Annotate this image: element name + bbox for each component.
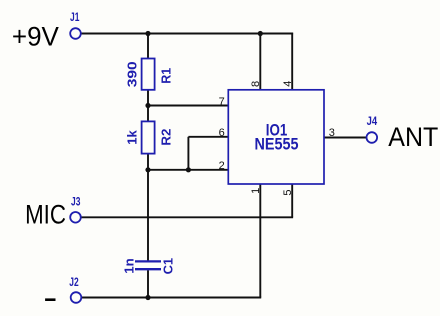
IC U1 IO1 NE555 box bbox=[228, 90, 324, 184]
wire pin2 bbox=[148, 169, 228, 171]
node pin8 junction bbox=[258, 31, 263, 36]
svg-text:1k: 1k bbox=[125, 130, 140, 145]
wire +9V rail top bbox=[76, 33, 293, 35]
svg-text:2: 2 bbox=[219, 160, 225, 172]
connector J1 bbox=[70, 28, 81, 39]
svg-text:7: 7 bbox=[219, 96, 225, 108]
wire MIC to pin5 horizontal bbox=[76, 216, 294, 218]
svg-text:+9V: +9V bbox=[12, 21, 59, 51]
wire C1 bottom lead bbox=[147, 270, 149, 297]
connector J2 bbox=[71, 292, 82, 303]
svg-text:8: 8 bbox=[250, 81, 262, 87]
wire pin1 drop bbox=[259, 184, 261, 298]
wire ground rail bbox=[76, 297, 261, 299]
wire R2 top lead bbox=[147, 106, 149, 122]
svg-text:R2: R2 bbox=[159, 129, 174, 146]
svg-text:4: 4 bbox=[282, 81, 294, 87]
svg-text:1n: 1n bbox=[122, 258, 137, 274]
wire pin6 to pin2 vertical bbox=[187, 137, 189, 170]
svg-text:J2: J2 bbox=[69, 275, 79, 289]
svg-text:5: 5 bbox=[282, 189, 294, 195]
node R1 top junction bbox=[145, 31, 150, 36]
svg-text:R1: R1 bbox=[159, 68, 174, 84]
svg-text:J1: J1 bbox=[70, 10, 80, 24]
svg-text:1: 1 bbox=[250, 188, 262, 194]
svg-text:MIC: MIC bbox=[25, 200, 66, 230]
svg-text:C1: C1 bbox=[160, 258, 175, 275]
wire R1 top lead bbox=[147, 34, 149, 59]
connector J3 bbox=[70, 212, 81, 223]
svg-text:3: 3 bbox=[329, 127, 335, 139]
svg-text:NE555: NE555 bbox=[255, 135, 299, 154]
svg-text:6: 6 bbox=[219, 127, 225, 139]
resistor R2 bbox=[142, 121, 155, 153]
node C1 ground junction bbox=[145, 295, 150, 300]
svg-text:390: 390 bbox=[125, 61, 140, 87]
node pin7 junction bbox=[145, 103, 150, 108]
svg-text:J4: J4 bbox=[367, 114, 378, 128]
wire R1 bottom lead bbox=[147, 90, 149, 106]
svg-text:ANT: ANT bbox=[388, 122, 438, 152]
wire pin6 horizontal bbox=[188, 136, 228, 138]
wire pin7 bbox=[148, 105, 228, 107]
node pin6 junction bbox=[186, 167, 191, 172]
connector J4 bbox=[367, 132, 378, 143]
net minus bbox=[45, 298, 55, 301]
node pin2 junction bbox=[145, 167, 150, 172]
capacitor C1 bbox=[135, 261, 161, 269]
wire pin3 to J4 bbox=[324, 137, 367, 139]
wire pin4 drop bbox=[291, 33, 293, 90]
wire R2 bottom lead bbox=[147, 154, 149, 170]
wire pin8 drop bbox=[259, 34, 261, 90]
svg-text:J3: J3 bbox=[71, 194, 81, 208]
wire to C1 top bbox=[147, 170, 149, 261]
wire pin5 vertical bbox=[291, 184, 293, 217]
resistor R1 bbox=[142, 59, 155, 90]
